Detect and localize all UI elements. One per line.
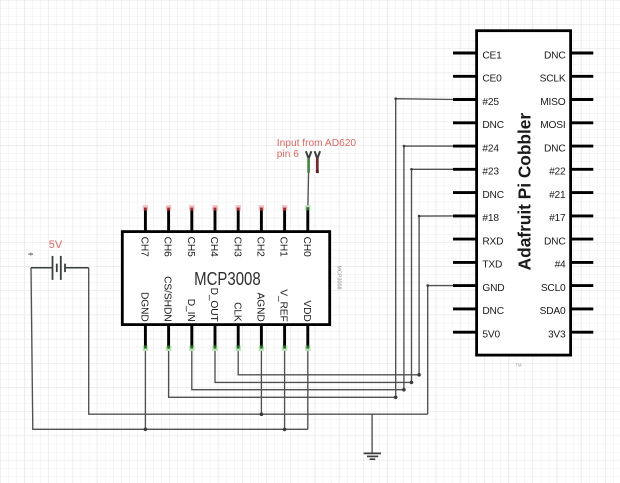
svg-text:#25: #25 (482, 97, 499, 108)
junction D_IN line at #24 riser (402, 388, 406, 392)
svg-text:CS/SHDN: CS/SHDN (162, 276, 173, 322)
junction net B at AGND (260, 412, 264, 416)
svg-text:CLK: CLK (231, 302, 242, 322)
svg-text:CE1: CE1 (482, 50, 502, 61)
wire ground symbol drop (371, 414, 373, 453)
pin CLK (bottom pin 5) (231, 302, 242, 351)
svg-text:CH1: CH1 (278, 237, 289, 258)
pin V_REF (bottom pin 7) (278, 289, 289, 351)
wire V_REF pin down to net A (284, 348, 286, 429)
wire DGND pin down to net A (144, 348, 146, 429)
cobbler right pin #21 (row 7) (549, 190, 593, 201)
pin CH4 (top pin 5) (208, 205, 219, 257)
bendpoint #25 stub corner (394, 97, 397, 100)
svg-text:CH6: CH6 (162, 237, 173, 258)
cobbler right pin #22 (row 6) (549, 167, 593, 178)
pin D_OUT (bottom pin 4) (208, 288, 219, 351)
cobbler right pin #4 (row 10) (555, 260, 594, 271)
svg-text:#22: #22 (549, 167, 566, 178)
junction D_OUT line at #23 riser (410, 381, 414, 385)
junction CLK line at #18 riser (417, 373, 421, 377)
pin CH1 (top pin 2) (278, 205, 289, 257)
wire D_OUT to cobbler #23 (215, 348, 412, 382)
cobbler left pin #23 (row 6) (453, 167, 499, 178)
junction net A at DGND (144, 428, 148, 432)
cobbler right pin MOSI (row 4) (540, 120, 593, 131)
svg-text:DNC: DNC (544, 143, 565, 154)
svg-text:MOSI: MOSI (540, 120, 565, 131)
cobbler left pin DNC (row 12) (453, 306, 504, 317)
svg-text:DNC: DNC (482, 190, 503, 201)
pin CS/SHDN (bottom pin 2) (162, 276, 173, 351)
pin AGND (bottom pin 6) (255, 293, 266, 351)
junction CS line at #25 riser (394, 396, 398, 400)
cobbler left pin #24 (row 5) (453, 143, 499, 154)
pin CH5 (top pin 6) (185, 205, 196, 257)
wire net B up to cobbler GND stub (428, 286, 454, 415)
pin CH7 (top pin 8) (139, 205, 150, 257)
cobbler right pin SCL0 (row 11) (541, 283, 593, 294)
input connector J1 (to CH0) (306, 151, 312, 172)
cobbler left pin CE1 (row 1) (453, 50, 502, 61)
svg-text:DNC: DNC (482, 120, 503, 131)
svg-text:SDA0: SDA0 (540, 306, 566, 317)
svg-text:DGND: DGND (139, 292, 150, 322)
bendpoint #23 stub corner (410, 168, 413, 171)
IC U1 MCP3008 body (122, 232, 341, 325)
svg-text:#23: #23 (482, 167, 499, 178)
svg-text:MCP3008: MCP3008 (335, 266, 341, 290)
cobbler left pin TXD (row 10) (453, 260, 502, 271)
svg-text:V_REF: V_REF (278, 289, 289, 321)
svg-text:MISO: MISO (540, 97, 566, 108)
svg-text:DNC: DNC (544, 236, 565, 247)
cobbler right pin MISO (row 3) (540, 97, 593, 108)
pin DGND (bottom pin 1) (139, 292, 150, 351)
svg-text:CE0: CE0 (482, 74, 502, 85)
svg-text:#24: #24 (482, 143, 499, 154)
svg-text:TXD: TXD (482, 260, 502, 271)
svg-text:CH3: CH3 (231, 237, 242, 258)
svg-text:SCL0: SCL0 (541, 283, 566, 294)
svg-text:DNC: DNC (482, 306, 503, 317)
pin CH6 (top pin 7) (162, 205, 173, 257)
bendpoint #24 stub corner (403, 145, 406, 148)
svg-text:#21: #21 (549, 190, 566, 201)
battery BT1 5V (31, 256, 89, 280)
MCP3008 top pins CH7..CH0 (139, 205, 312, 257)
battery plus mark (28, 252, 33, 256)
pin CH0 (top pin 1) (301, 205, 312, 257)
pin CH2 (top pin 3) (255, 205, 266, 257)
svg-text:#18: #18 (482, 213, 499, 224)
cobbler right pin #17 (row 8) (549, 213, 593, 224)
svg-text:D_OUT: D_OUT (208, 288, 219, 322)
svg-text:CH4: CH4 (208, 237, 219, 258)
cobbler left pin RXD (row 9) (453, 236, 503, 247)
MCP3008 bottom pins DGND..VDD (139, 276, 312, 351)
svg-text:GND: GND (482, 283, 504, 294)
svg-text:CH7: CH7 (139, 237, 150, 258)
wire VDD pin down to net A (307, 348, 309, 429)
cobbler right pin DNC (row 1) (544, 50, 593, 61)
svg-text:3V3: 3V3 (548, 330, 566, 341)
svg-text:#17: #17 (549, 213, 566, 224)
wire CLK to cobbler #18 (238, 348, 419, 374)
svg-text:D_IN: D_IN (185, 299, 196, 322)
svg-text:Input from AD620: Input from AD620 (277, 138, 357, 149)
input connector J2 (floating) (315, 151, 321, 173)
wire battery right terminal down and net B (89, 268, 428, 414)
svg-text:pin 6: pin 6 (277, 149, 299, 160)
bendpoint #18 stub corner (418, 215, 421, 218)
cobbler left pin DNC (row 4) (453, 120, 504, 131)
cobbler left pin #18 (row 8) (453, 213, 499, 224)
wire CS/SHDN to cobbler #25 (169, 348, 396, 397)
svg-text:RXD: RXD (482, 236, 503, 247)
cobbler left pin GND (row 11) (453, 283, 504, 294)
cobbler right pin SCLK (row 2) (540, 74, 594, 85)
bendpoint GND stub corner (426, 284, 429, 287)
svg-text:CH0: CH0 (301, 237, 312, 258)
IC U2 Adafruit Pi Cobbler body (477, 31, 571, 368)
cobbler right pin 3V3 (row 13) (548, 330, 593, 341)
svg-text:AGND: AGND (255, 293, 266, 322)
svg-text:5V: 5V (49, 239, 63, 251)
pin CH3 (top pin 4) (231, 205, 242, 257)
svg-text:Adafruit Pi Cobbler: Adafruit Pi Cobbler (514, 113, 534, 271)
svg-text:5V0: 5V0 (482, 330, 500, 341)
ground symbol (364, 453, 381, 459)
cobbler pins (453, 50, 593, 340)
svg-text:VDD: VDD (301, 300, 312, 321)
cobbler left pin 5V0 (row 13) (453, 330, 500, 341)
cobbler right pin DNC (row 5) (544, 143, 593, 154)
cobbler left pin #25 (row 3) (453, 97, 499, 108)
svg-text:CH2: CH2 (255, 237, 266, 258)
pin D_IN (bottom pin 3) (185, 299, 196, 351)
svg-text:DNC: DNC (544, 50, 565, 61)
svg-text:TM: TM (516, 363, 523, 368)
cobbler right pin SDA0 (row 12) (540, 306, 594, 317)
pin VDD (bottom pin 8) (301, 300, 312, 351)
junction net A at V_REF (283, 428, 287, 432)
svg-text:MCP3008: MCP3008 (194, 268, 261, 289)
wire AGND pin down to net B (260, 348, 262, 414)
wire D_IN to cobbler #24 (192, 348, 404, 389)
wire CH0 up to input connector (307, 173, 310, 206)
cobbler left pin DNC (row 7) (453, 190, 504, 201)
svg-text:#4: #4 (555, 260, 566, 271)
svg-text:CH5: CH5 (185, 237, 196, 258)
cobbler left pin CE0 (row 2) (453, 74, 502, 85)
svg-text:SCLK: SCLK (540, 74, 566, 85)
cobbler right pin DNC (row 9) (544, 236, 593, 247)
wire battery negative left down and net A along bottom (31, 268, 308, 430)
